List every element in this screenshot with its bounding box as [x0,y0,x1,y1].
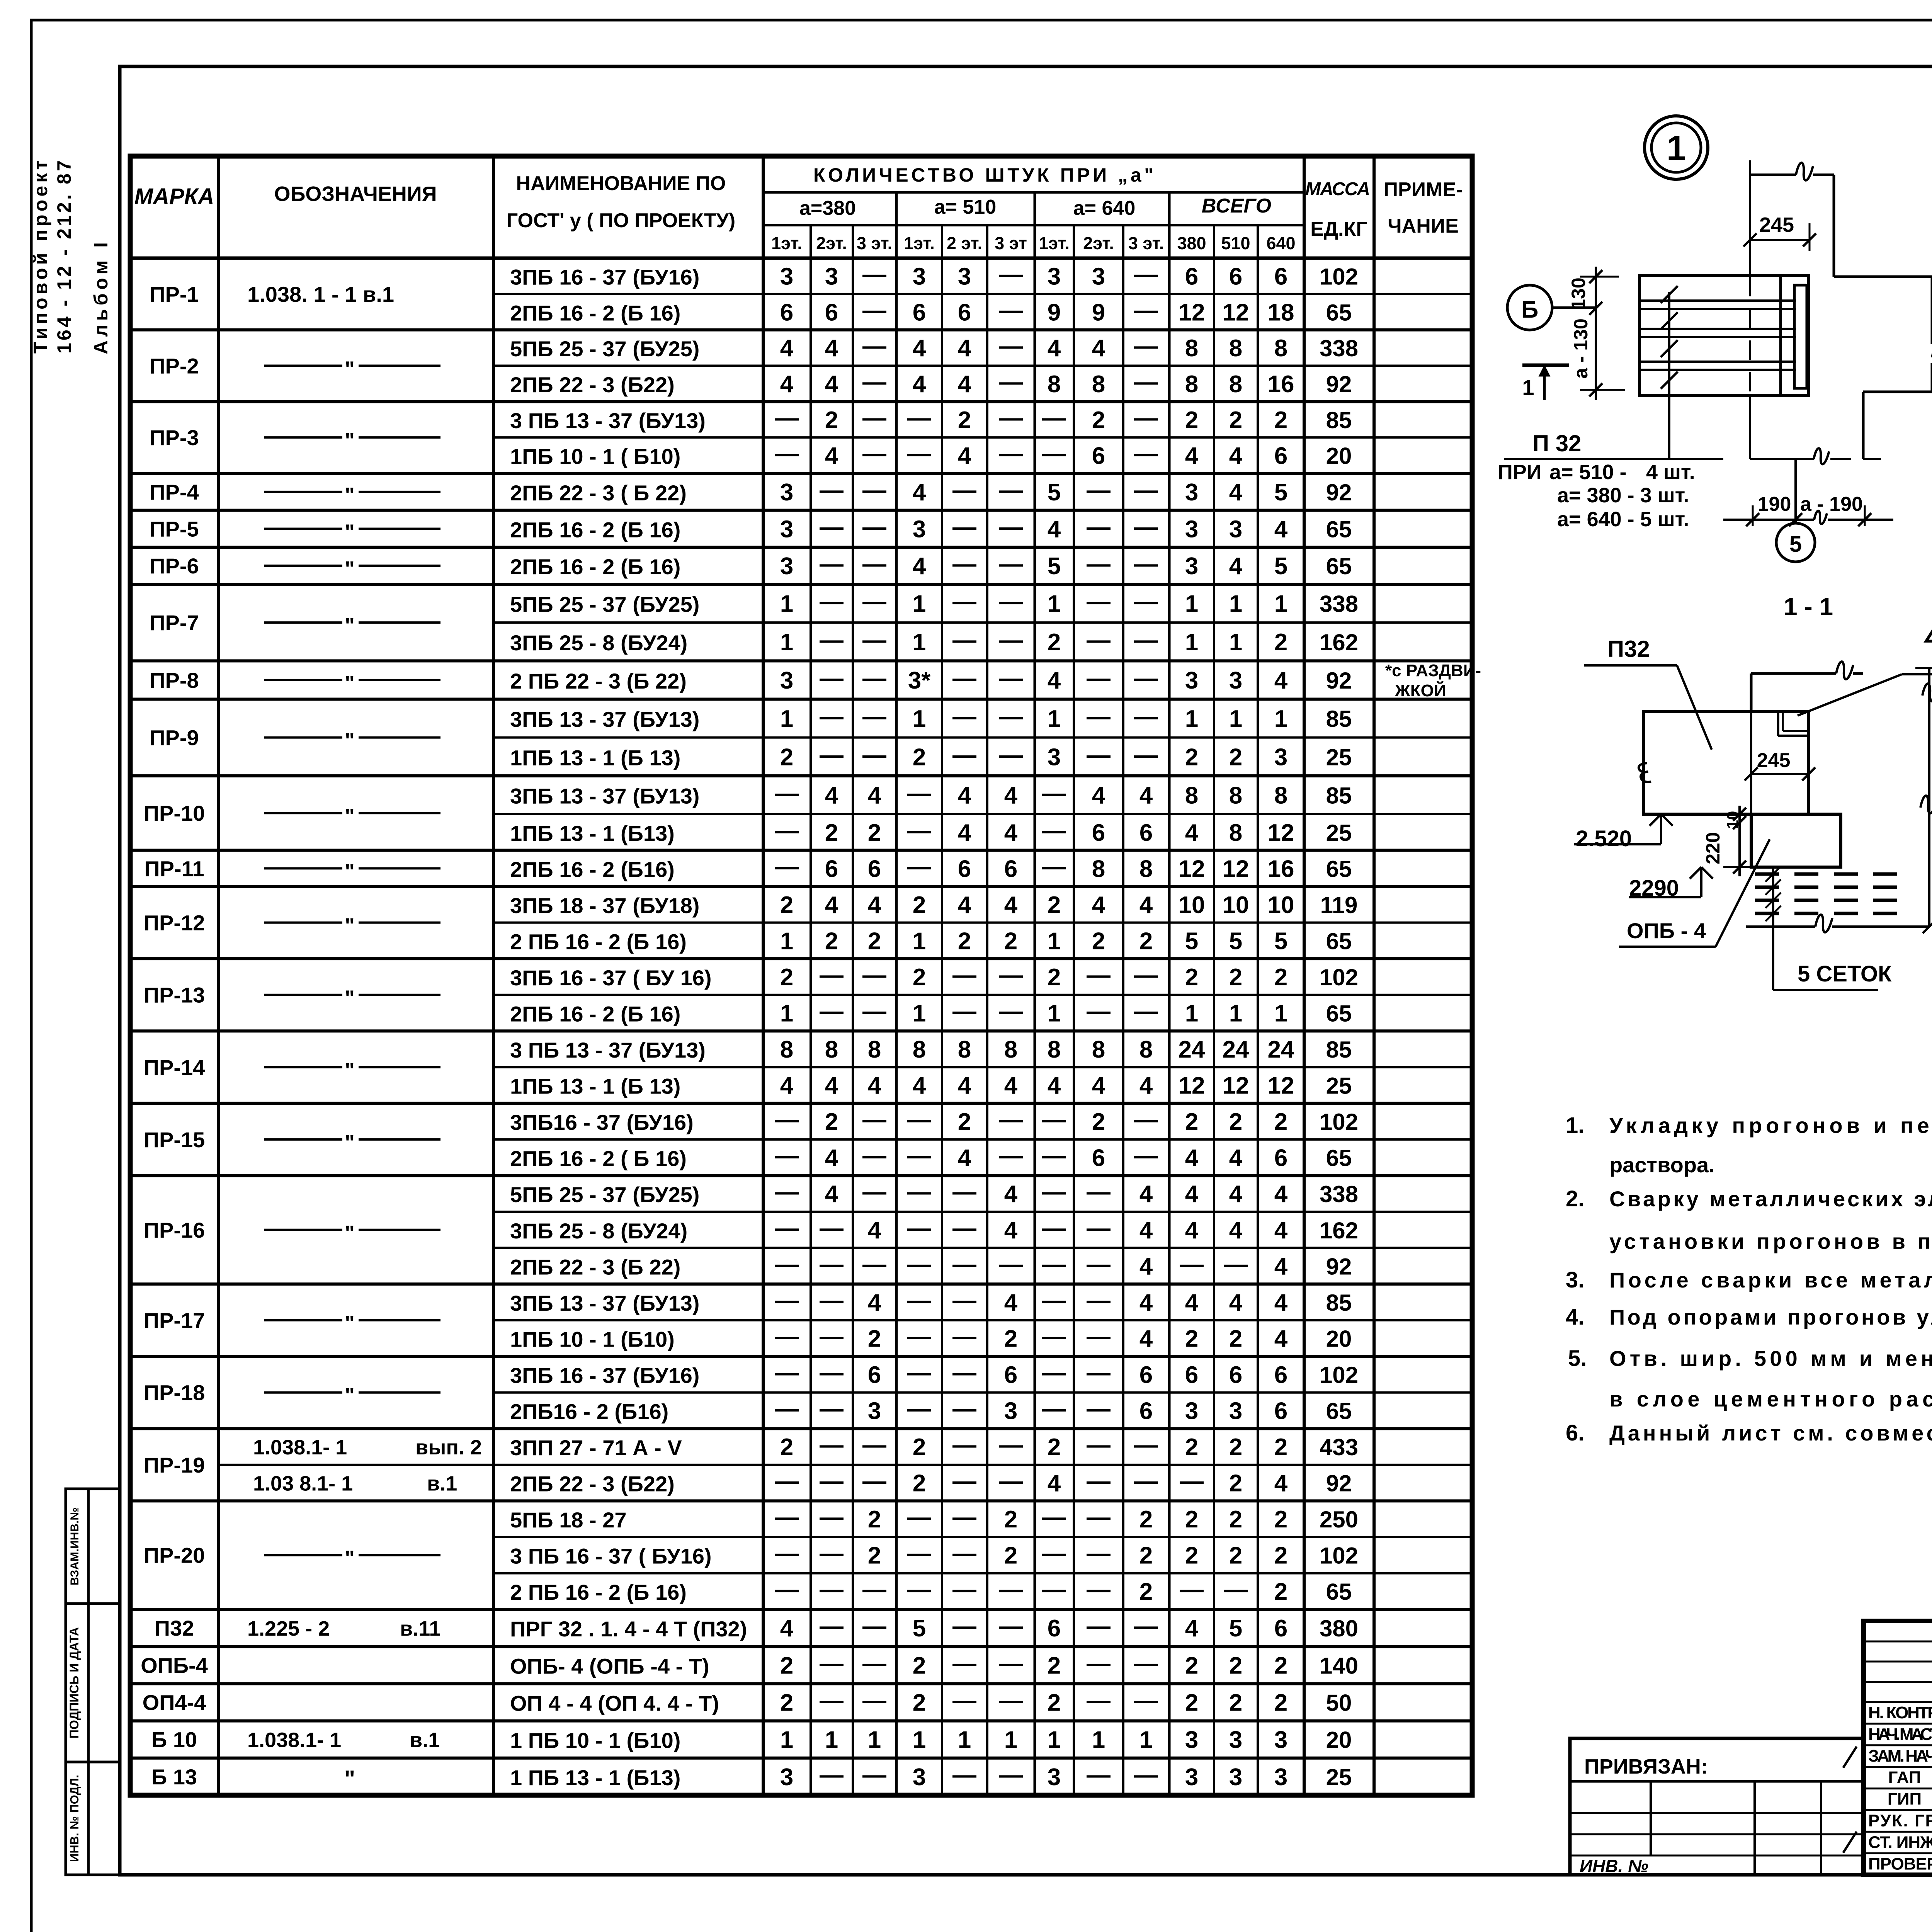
svg-text:4: 4 [1004,782,1018,809]
svg-text:4: 4 [868,1073,881,1099]
svg-text:2ПБ 22 - 3 ( Б 22): 2ПБ 22 - 3 ( Б 22) [510,481,687,505]
svg-text:ОПБ-4: ОПБ-4 [141,1653,208,1677]
svg-text:—: — [952,1613,976,1639]
svg-text:1ПБ 13 - 1 (Б 13): 1ПБ 13 - 1 (Б 13) [510,1074,680,1099]
svg-text:ПРОВЕР.: ПРОВЕР. [1868,1854,1932,1873]
svg-text:3: 3 [1048,263,1061,290]
svg-text:102: 102 [1320,1362,1358,1388]
svg-text:3ПБ 13 - 37 (БУ13): 3ПБ 13 - 37 (БУ13) [510,1291,699,1315]
svg-text:—: — [775,1106,799,1133]
svg-text:—: — [1224,1251,1248,1277]
svg-text:—: — [1134,1762,1158,1788]
svg-text:4: 4 [1004,1217,1018,1244]
svg-text:4: 4 [1229,479,1243,506]
svg-text:162: 162 [1320,1218,1358,1243]
svg-text:250: 250 [1320,1507,1358,1532]
svg-text:2: 2 [1185,1109,1198,1135]
svg-text:": " [345,1131,355,1154]
svg-text:4: 4 [1274,1470,1288,1497]
svg-text:2: 2 [825,1109,838,1135]
svg-text:ЧАНИЕ: ЧАНИЕ [1388,215,1459,237]
svg-text:2: 2 [1274,964,1287,991]
svg-text:85: 85 [1326,1290,1352,1316]
svg-text:2эт.: 2эт. [1083,233,1114,253]
svg-text:2: 2 [1092,928,1105,954]
svg-text:2ПБ 16 - 2 (Б16): 2ПБ 16 - 2 (Б16) [510,857,675,881]
svg-text:": " [345,1384,355,1407]
svg-text:65: 65 [1326,1001,1352,1027]
svg-text:8: 8 [1139,855,1153,882]
svg-text:8: 8 [1274,335,1287,362]
svg-text:ВСЕГО: ВСЕГО [1202,195,1271,217]
svg-text:2ПБ 16 - 2 (Б 16): 2ПБ 16 - 2 (Б 16) [510,1002,680,1026]
left stamp boxes [66,1489,120,1875]
svg-text:12: 12 [1179,299,1205,326]
1-1 mesh leader line [1772,867,1774,990]
svg-text:4: 4 [1229,1181,1243,1207]
svg-text:2: 2 [780,964,793,991]
svg-text:1: 1 [1229,1000,1242,1027]
svg-text:—: — [999,333,1023,359]
svg-text:—: — [820,1687,844,1714]
svg-text:": " [345,804,355,828]
svg-text:—: — [1180,1576,1204,1603]
svg-text:8: 8 [1048,1036,1061,1063]
table group ПР-9 [130,774,1472,777]
svg-text:—: — [952,1687,976,1714]
table group ПР-11 [130,885,1472,888]
svg-text:1ПБ 10 - 1 (Б10): 1ПБ 10 - 1 (Б10) [510,1327,675,1351]
svg-text:6: 6 [1092,1145,1105,1172]
svg-text:—: — [820,627,844,653]
svg-text:1: 1 [780,706,793,732]
svg-text:—: — [1134,1143,1158,1169]
svg-text:": " [345,614,355,637]
svg-text:1: 1 [1048,928,1061,954]
svg-text:1: 1 [913,1727,926,1753]
svg-text:—: — [1087,1359,1111,1386]
svg-text:—: — [999,627,1023,653]
svg-text:4: 4 [1092,892,1105,918]
svg-text:a - 130: a - 130 [1570,318,1592,379]
svg-text:25: 25 [1326,744,1352,770]
svg-text:НАИМЕНОВАНИЕ ПО: НАИМЕНОВАНИЕ ПО [516,172,726,195]
svg-text:—: — [820,1251,844,1277]
svg-text:—: — [1134,551,1158,577]
svg-text:25: 25 [1326,1764,1352,1790]
svg-text:18: 18 [1268,299,1294,326]
svg-text:2: 2 [1004,928,1017,954]
svg-text:24: 24 [1223,1036,1249,1063]
svg-text:1: 1 [1185,706,1198,732]
table column lines [217,156,220,1795]
svg-text:раствора.: раствора. [1609,1153,1715,1177]
svg-text:": " [345,520,355,544]
svg-text:3 эт: 3 эт [995,233,1027,253]
1-1 inner wall face line [1750,711,1752,814]
svg-text:1.225 - 2: 1.225 - 2 [247,1617,330,1640]
svg-text:4: 4 [825,443,838,469]
svg-text:12: 12 [1223,299,1249,326]
svg-text:ПР-13: ПР-13 [144,983,205,1007]
1-1 long extent line right [1928,668,1930,927]
svg-text:—: — [862,1468,886,1495]
svg-text:ПР-7: ПР-7 [150,611,199,635]
svg-text:": " [345,672,355,695]
svg-text:2: 2 [958,407,971,434]
svg-text:—: — [999,369,1023,395]
svg-text:8: 8 [1229,335,1242,362]
svg-text:—: — [1180,1468,1204,1495]
svg-text:5ПБ 25 - 37 (БУ25): 5ПБ 25 - 37 (БУ25) [510,592,699,617]
svg-text:2: 2 [1048,629,1061,656]
section mark 1-1 left [1522,364,1569,367]
svg-text:6: 6 [1229,263,1242,290]
svg-text:—: — [1134,588,1158,615]
svg-text:4: 4 [958,1073,971,1099]
axis circle Б [1507,285,1552,330]
svg-text:ПР-18: ПР-18 [144,1381,205,1405]
svg-text:2: 2 [1274,407,1287,434]
svg-text:—: — [999,703,1023,730]
svg-text:—: — [820,1540,844,1567]
svg-text:": " [345,1059,355,1082]
svg-text:140: 140 [1320,1653,1358,1679]
svg-text:ГАП: ГАП [1888,1768,1921,1787]
svg-text:ПР-4: ПР-4 [150,480,199,504]
svg-text:9: 9 [1092,299,1105,326]
svg-text:—: — [952,1359,976,1386]
svg-text:—: — [1134,1687,1158,1714]
svg-text:3: 3 [1274,1727,1287,1753]
svg-text:вып. 2: вып. 2 [415,1436,482,1459]
svg-text:": " [345,1312,355,1335]
svg-text:—: — [775,1215,799,1242]
svg-text:—: — [1087,551,1111,577]
svg-text:2: 2 [1004,1325,1017,1352]
svg-text:—: — [1087,742,1111,768]
svg-text:2ПБ 22 - 3 (Б22): 2ПБ 22 - 3 (Б22) [510,372,675,397]
svg-text:—: — [952,1215,976,1242]
svg-text:ПР-9: ПР-9 [150,726,199,750]
svg-text:6: 6 [958,855,971,882]
svg-text:2: 2 [825,820,838,846]
svg-text:—: — [1087,1432,1111,1458]
svg-text:ЗАМ. НАЧ.: ЗАМ. НАЧ. [1868,1747,1932,1765]
svg-text:4: 4 [1139,1325,1153,1352]
svg-text:4: 4 [1139,782,1153,809]
svg-text:1.038.1- 1: 1.038.1- 1 [253,1436,347,1459]
svg-text:2: 2 [1048,964,1061,991]
svg-text:СТ. ИНЖ.: СТ. ИНЖ. [1868,1833,1932,1852]
svg-text:2: 2 [1048,892,1061,918]
svg-text:6: 6 [1139,820,1153,846]
svg-text:—: — [862,588,886,615]
svg-text:НАЧ. МАСТ: НАЧ. МАСТ [1868,1725,1932,1744]
svg-text:2: 2 [1229,1434,1242,1461]
svg-text:—: — [820,1613,844,1639]
svg-text:130: 130 [1568,277,1589,310]
svg-text:—: — [952,1576,976,1603]
svg-text:—: — [1087,1540,1111,1567]
svg-text:8: 8 [1229,820,1242,846]
svg-text:ИНВ. № ПОДЛ.: ИНВ. № ПОДЛ. [68,1775,81,1862]
1-1 wall above [1751,672,1836,675]
svg-text:6: 6 [1274,443,1287,469]
svg-text:—: — [862,742,886,768]
svg-text:4: 4 [1185,1289,1199,1316]
svg-text:3: 3 [1185,1398,1198,1425]
svg-text:2: 2 [868,928,881,954]
svg-text:П32: П32 [155,1616,194,1640]
svg-text:—: — [820,1576,844,1603]
table group ПР-17 [130,1355,1472,1358]
svg-text:—: — [862,514,886,541]
svg-text:8: 8 [1004,1036,1017,1063]
svg-text:2: 2 [1048,1690,1061,1716]
svg-text:ЖКОЙ: ЖКОЙ [1395,680,1446,700]
table group ПР-3 [130,472,1472,475]
svg-text:6: 6 [1004,1362,1017,1388]
svg-text:—: — [1042,440,1066,467]
svg-text:8: 8 [1048,371,1061,398]
svg-text:—: — [907,1251,931,1277]
svg-text:Б: Б [1521,296,1539,323]
svg-text:3: 3 [1229,1727,1242,1753]
svg-text:1 ПБ 10 - 1 (Б10): 1 ПБ 10 - 1 (Б10) [510,1728,680,1753]
svg-text:4: 4 [868,1289,881,1316]
svg-text:4: 4 [1004,1073,1018,1099]
svg-text:4: 4 [1139,1073,1153,1099]
svg-text:1: 1 [1048,706,1061,732]
svg-text:8: 8 [780,1036,793,1063]
svg-text:1: 1 [1229,629,1242,656]
svg-text:Б 13: Б 13 [151,1765,197,1789]
svg-text:2: 2 [1185,964,1198,991]
svg-text:85: 85 [1326,706,1352,732]
svg-text:2: 2 [868,820,881,846]
svg-text:2: 2 [868,1506,881,1533]
svg-text:6: 6 [1139,1398,1153,1425]
svg-text:4: 4 [1004,820,1018,846]
svg-text:—: — [820,588,844,615]
svg-text:—: — [1087,703,1111,730]
svg-text:—: — [1224,1576,1248,1603]
svg-text:—: — [999,1576,1023,1603]
title block outer [1864,1621,1932,1875]
svg-text:—: — [952,1287,976,1314]
привязан table [1570,1738,1864,1875]
svg-text:—: — [820,962,844,988]
svg-text:—: — [907,1143,931,1169]
svg-text:8: 8 [1229,371,1242,398]
svg-text:—: — [862,627,886,653]
svg-text:65: 65 [1326,553,1352,579]
svg-text:3: 3 [825,263,838,290]
svg-text:a= 640 - 5 шт.: a= 640 - 5 шт. [1557,508,1689,531]
svg-text:—: — [862,1106,886,1133]
svg-text:92: 92 [1326,1471,1352,1497]
svg-text:—: — [862,297,886,323]
svg-text:6: 6 [1274,263,1287,290]
svg-text:ПРИ: ПРИ [1498,461,1542,484]
svg-text:8: 8 [1092,855,1105,882]
svg-text:12: 12 [1179,1073,1205,1099]
svg-text:—: — [1042,1576,1066,1603]
table group ПР-18 [130,1427,1472,1430]
svg-text:2: 2 [1274,1578,1287,1605]
svg-text:4: 4 [1229,443,1243,469]
svg-text:4: 4 [1092,782,1105,809]
svg-text:1.: 1. [1566,1113,1584,1138]
svg-text:6: 6 [1274,1615,1287,1642]
svg-text:1: 1 [1667,129,1686,168]
svg-text:20: 20 [1326,1326,1352,1352]
svg-text:—: — [820,1468,844,1495]
svg-text:65: 65 [1326,1398,1352,1424]
svg-text:12: 12 [1223,1073,1249,1099]
svg-text:—: — [907,1179,931,1205]
svg-text:—: — [907,1323,931,1350]
svg-text:2: 2 [1185,1652,1198,1679]
svg-text:—: — [952,962,976,988]
svg-text:3: 3 [913,1764,926,1791]
svg-text:—: — [999,1613,1023,1639]
svg-text:—: — [1087,1613,1111,1639]
title block role rows [1864,1701,1932,1703]
svg-text:338: 338 [1320,335,1358,361]
svg-text:4: 4 [1274,1289,1288,1316]
svg-text:2: 2 [1274,629,1287,656]
svg-text:16: 16 [1268,371,1294,398]
svg-text:—: — [952,1650,976,1677]
svg-text:5: 5 [1789,532,1802,557]
svg-text:ОПБ- 4 (ОПБ -4 - Т): ОПБ- 4 (ОПБ -4 - Т) [510,1654,709,1678]
svg-text:1эт.: 1эт. [904,233,935,253]
svg-text:85: 85 [1326,782,1352,808]
svg-text:ПРИВЯЗАН:: ПРИВЯЗАН: [1584,1755,1708,1778]
svg-text:6: 6 [1229,1362,1242,1388]
svg-text:2: 2 [1048,1652,1061,1679]
svg-text:6: 6 [913,299,926,326]
svg-text:—: — [1087,514,1111,541]
svg-text:—: — [775,1576,799,1603]
svg-text:—: — [952,1762,976,1788]
svg-text:2: 2 [868,1325,881,1352]
svg-text:—: — [775,1468,799,1495]
svg-text:338: 338 [1320,1181,1358,1207]
svg-text:16: 16 [1268,855,1294,882]
table group ПР-20 [130,1608,1472,1611]
svg-text:—: — [775,1504,799,1531]
svg-text:3: 3 [1185,1764,1198,1791]
svg-text:—: — [820,551,844,577]
svg-text:8: 8 [825,1036,838,1063]
svg-text:2ПБ 16 - 2 ( Б 16): 2ПБ 16 - 2 ( Б 16) [510,1146,687,1171]
svg-text:—: — [907,440,931,467]
svg-text:2: 2 [825,928,838,954]
svg-text:—: — [1087,665,1111,692]
svg-text:2: 2 [1274,1434,1287,1461]
svg-text:8: 8 [1092,371,1105,398]
svg-text:—: — [820,742,844,768]
svg-text:—: — [820,477,844,503]
svg-text:—: — [999,1106,1023,1133]
svg-text:—: — [1042,1359,1066,1386]
table group ПР-2 [130,400,1472,403]
svg-text:3ПБ 16 - 37 ( БУ 16): 3ПБ 16 - 37 ( БУ 16) [510,966,712,990]
svg-text:—: — [1042,853,1066,880]
svg-text:102: 102 [1320,264,1358,289]
svg-text:—: — [952,1396,976,1422]
svg-text:3: 3 [1004,1398,1017,1425]
detail 1 hidden axis line [1749,277,1751,395]
svg-text:3 ПБ 16 - 37 ( БУ16): 3 ПБ 16 - 37 ( БУ16) [510,1544,712,1568]
svg-text:в слое цементного р: в слое цементного раствора. [1609,1387,1932,1411]
table group ПР-15 [130,1174,1472,1177]
svg-text:в.1: в.1 [427,1472,457,1495]
svg-text:—: — [999,514,1023,541]
svg-text:6: 6 [1274,1398,1287,1425]
svg-text:4: 4 [913,479,926,506]
svg-text:ОПБ - 4: ОПБ - 4 [1627,918,1706,943]
table group ПР-10 [130,849,1472,852]
svg-text:510: 510 [1221,233,1250,253]
svg-text:4: 4 [913,371,926,398]
svg-text:4 шт.: 4 шт. [1646,461,1695,484]
svg-text:—: — [1087,1504,1111,1531]
svg-text:—: — [1042,817,1066,844]
detail 1 right wall plan [1834,276,1932,278]
svg-text:3ПБ 18 - 37 (БУ18): 3ПБ 18 - 37 (БУ18) [510,893,699,918]
svg-text:12: 12 [1223,855,1249,882]
svg-text:433: 433 [1320,1434,1358,1460]
svg-text:85: 85 [1326,1037,1352,1063]
svg-text:4: 4 [868,892,881,918]
svg-text:": " [344,1766,355,1792]
svg-text:2: 2 [1229,1543,1242,1569]
svg-text:1.038. 1 - 1 в.1: 1.038. 1 - 1 в.1 [247,282,394,306]
svg-text:4: 4 [1274,667,1288,694]
svg-text:—: — [999,1468,1023,1495]
detail 1 bar line with ticks [1668,292,1670,459]
svg-text:—: — [775,1540,799,1567]
svg-text:—: — [775,780,799,806]
svg-text:—: — [907,817,931,844]
svg-text:—: — [999,405,1023,431]
svg-text:—: — [775,1143,799,1169]
svg-text:—: — [1042,1106,1066,1133]
svg-text:2: 2 [1139,1578,1153,1605]
svg-text:4: 4 [958,892,971,918]
svg-text:—: — [952,742,976,768]
svg-text:2: 2 [1229,964,1242,991]
svg-text:—: — [952,588,976,615]
svg-text:2ПБ 22 - 3 (Б22): 2ПБ 22 - 3 (Б22) [510,1472,675,1496]
svg-text:3: 3 [1185,667,1198,694]
svg-text:3: 3 [1229,516,1242,543]
svg-text:6: 6 [1185,263,1198,290]
svg-text:1: 1 [913,591,926,617]
1-1 masonry with meshes (dashed courses) [1755,872,1899,876]
table group П32 [130,1645,1472,1648]
svg-text:—: — [952,1504,976,1531]
svg-text:—: — [862,1762,886,1788]
svg-text:4: 4 [958,371,971,398]
svg-text:2: 2 [1274,1109,1287,1135]
svg-text:—: — [1134,1650,1158,1677]
svg-text:1: 1 [780,629,793,656]
